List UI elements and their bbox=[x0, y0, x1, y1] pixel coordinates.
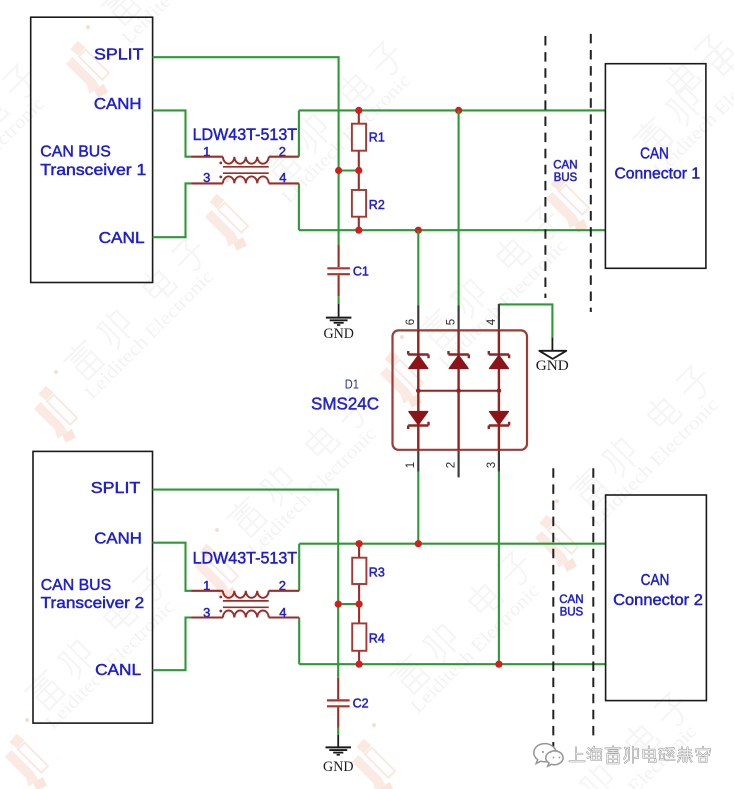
svg-text:R3: R3 bbox=[369, 565, 385, 579]
capacitor C2 bbox=[327, 678, 369, 728]
wire choke L1 pin4 riser to CANL1 rail bbox=[298, 183, 300, 230]
svg-text:CAN: CAN bbox=[641, 572, 670, 589]
svg-text:SPLIT: SPLIT bbox=[94, 46, 144, 63]
svg-text:Connector 2: Connector 2 bbox=[613, 592, 703, 609]
resistor R3 bbox=[352, 544, 385, 604]
wire SPLIT2 to R divider midpoint bbox=[338, 603, 359, 605]
resistor R1 bbox=[352, 110, 385, 170]
wire D1 pin5 riser to CANH1 rail bbox=[458, 110, 460, 306]
dashed bus separator line 1 bbox=[544, 36, 546, 298]
D1 lower TVS diode d (cathode bar down) bbox=[408, 412, 428, 429]
svg-text:CAN BUS: CAN BUS bbox=[40, 144, 111, 161]
svg-text:BUS: BUS bbox=[554, 172, 578, 184]
svg-text:CAN: CAN bbox=[559, 594, 583, 606]
wire D1 pin3 to CANL2 rail bbox=[498, 472, 500, 665]
D1 body outline bbox=[393, 330, 528, 449]
D1 upper TVS diode a (cathode bar up) bbox=[408, 351, 428, 368]
CAN BUS label 1 bbox=[553, 159, 577, 184]
wire SPLIT1 to R divider midpoint bbox=[339, 169, 359, 171]
wire choke L2 pin4 riser to CANL2 rail bbox=[298, 618, 300, 665]
svg-text:SMS24C: SMS24C bbox=[311, 394, 379, 414]
svg-text:R4: R4 bbox=[369, 632, 385, 646]
svg-text:GND: GND bbox=[536, 358, 569, 374]
D1 lower TVS diode e bbox=[489, 412, 509, 429]
svg-text:CANH: CANH bbox=[94, 530, 142, 547]
footer company name 上海雷卯电磁兼容 bbox=[570, 746, 711, 763]
capacitor C1 bbox=[327, 245, 369, 297]
svg-text:GND: GND bbox=[323, 326, 354, 342]
svg-text:CANL: CANL bbox=[95, 662, 141, 679]
svg-text:LDW43T-513T: LDW43T-513T bbox=[193, 549, 298, 568]
D1 pin stubs bottom bbox=[418, 450, 499, 478]
ground GND1 (signal ground under C1) bbox=[323, 304, 354, 342]
dashed bus separator line 4 bbox=[592, 468, 594, 737]
svg-text:CAN BUS: CAN BUS bbox=[41, 577, 112, 594]
wire CANL2 rail bbox=[299, 663, 605, 665]
wire CANL2 pin to choke L2 pin3 bbox=[153, 618, 192, 671]
common mode choke L2 LDW43T-513T bbox=[192, 549, 300, 620]
svg-text:R1: R1 bbox=[369, 130, 385, 144]
svg-text:CANH: CANH bbox=[94, 96, 142, 113]
wire CANH1 pin to choke L1 pin1 bbox=[153, 110, 192, 156]
wire D1 pin6 riser to CANL1 rail bbox=[417, 230, 419, 306]
svg-text:CAN: CAN bbox=[553, 159, 577, 171]
svg-text:LDW43T-513T: LDW43T-513T bbox=[193, 125, 298, 144]
svg-text:CANL: CANL bbox=[99, 230, 145, 247]
svg-text:6: 6 bbox=[405, 319, 417, 325]
D1 upper TVS diode b bbox=[449, 351, 469, 368]
wire D1 pin4 to GND2 bbox=[499, 304, 553, 337]
dashed bus separator line 2 bbox=[590, 34, 592, 312]
svg-text:5: 5 bbox=[446, 319, 458, 325]
CAN BUS Transceiver 2 box U2 bbox=[33, 451, 153, 723]
svg-text:BUS: BUS bbox=[560, 607, 584, 619]
wire CANH2 pin to choke L2 pin1 bbox=[153, 543, 192, 591]
dashed bus separator line 3 bbox=[552, 468, 554, 752]
D1 upper TVS diode c bbox=[489, 351, 509, 368]
wire CANH1 rail bbox=[299, 109, 606, 111]
svg-text:SPLIT: SPLIT bbox=[91, 480, 141, 497]
wire SPLIT2 net bbox=[153, 490, 339, 678]
CAN Connector 2 box J2 bbox=[606, 495, 707, 701]
wire choke L1 pin2 riser to CANH1 rail bbox=[298, 110, 300, 156]
junction dots top section bbox=[355, 107, 362, 114]
D1 mid rail bbox=[418, 390, 499, 392]
wire CANL1 rail bbox=[299, 229, 606, 231]
svg-text:C1: C1 bbox=[353, 264, 369, 278]
resistor R2 bbox=[352, 171, 385, 231]
ground GND3 (signal ground under C2) bbox=[323, 735, 354, 775]
TVS diode array D1 SMS24C bbox=[311, 304, 527, 478]
resistor R4 bbox=[352, 604, 385, 664]
svg-text:Transceiver 1: Transceiver 1 bbox=[40, 162, 146, 179]
svg-text:CAN: CAN bbox=[640, 146, 669, 163]
wire SPLIT1 net bbox=[153, 57, 339, 244]
svg-text:4: 4 bbox=[486, 318, 498, 325]
svg-text:Connector 1: Connector 1 bbox=[614, 165, 700, 182]
wire D1 pin1 to CANH2 rail bbox=[417, 472, 419, 544]
D1 pin stubs top bbox=[418, 304, 499, 331]
wire CANH2 rail bbox=[299, 543, 605, 545]
footer WeChat logo bbox=[534, 744, 563, 767]
svg-text:Transceiver 2: Transceiver 2 bbox=[41, 595, 145, 612]
svg-text:3: 3 bbox=[486, 462, 498, 468]
wire choke L2 pin2 riser to CANH2 rail bbox=[298, 544, 300, 591]
svg-text:GND: GND bbox=[323, 759, 354, 775]
svg-text:R2: R2 bbox=[369, 198, 385, 212]
svg-text:2: 2 bbox=[446, 462, 458, 468]
svg-text:1: 1 bbox=[405, 462, 417, 468]
wire CANL1 pin to choke L1 pin3 bbox=[153, 183, 192, 237]
common mode choke L1 LDW43T-513T bbox=[192, 125, 299, 185]
wire C2 to GND bbox=[337, 728, 339, 736]
ground GND2 (open triangle near connector 1) bbox=[536, 338, 569, 375]
D1 internal column lines bbox=[418, 330, 499, 450]
svg-text:D1: D1 bbox=[345, 378, 359, 392]
CAN Connector 1 box J1 bbox=[605, 64, 706, 269]
wire C1 to GND bbox=[338, 296, 340, 304]
svg-text:C2: C2 bbox=[353, 696, 369, 710]
junction dots bottom section bbox=[356, 540, 363, 547]
CAN BUS Transceiver 1 box U1 bbox=[31, 17, 153, 282]
CAN BUS label 2 bbox=[559, 594, 583, 619]
